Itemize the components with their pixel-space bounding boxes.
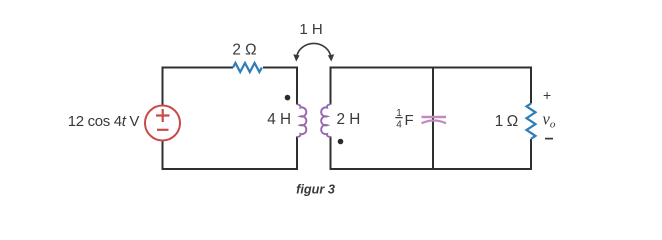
wire: 4H coil bottom down and bottom wire back to source bottom [163,137,298,170]
svg-text:4: 4 [396,120,402,131]
capacitor C 1/4F top plate [422,116,447,118]
wire: right loop top-left down to 2H coil [331,68,434,105]
dot: secondary polarity dot [338,139,344,145]
svg-text:2 H: 2 H [337,111,361,128]
wire: capacitor branch vertical [432,68,434,170]
voltage source circle [145,106,180,141]
resistor R 1ohm (vertical zigzag) [527,104,536,139]
wire: right loop bottom [331,137,532,170]
arrowhead right [328,54,334,61]
wire: right loop top right part [433,68,531,104]
voltage source minus sign [157,129,169,131]
arrowhead left [293,54,299,61]
capacitor bottom curved plate [422,121,447,124]
svg-text:12 cos 4t V: 12 cos 4t V [68,113,140,130]
svg-text:2 Ω: 2 Ω [232,41,256,58]
voltage source plus sign [156,109,170,122]
dot: primary polarity dot [285,95,291,101]
svg-text:F: F [405,112,414,129]
label: - output [545,138,553,140]
inductor L2 2H coil [321,104,330,137]
label: 1/4 F fraction [395,108,413,131]
svg-text:1 Ω: 1 Ω [495,113,518,130]
svg-text:figur 3: figur 3 [296,183,335,197]
svg-text:4 H: 4 H [267,111,291,128]
svg-text:1 H: 1 H [299,21,322,38]
wire: resistor right to left-loop top-right corner, down to 4H coil top [263,68,297,105]
wire: left loop top (source top to resistor) [163,68,234,106]
inductor L1 4H coil [297,104,306,137]
resistor R 2ohm (horizontal zigzag) [233,63,262,72]
mutual coupling arc 1H [297,43,332,58]
svg-text:+: + [543,87,551,103]
svg-text:vo: vo [543,110,556,131]
